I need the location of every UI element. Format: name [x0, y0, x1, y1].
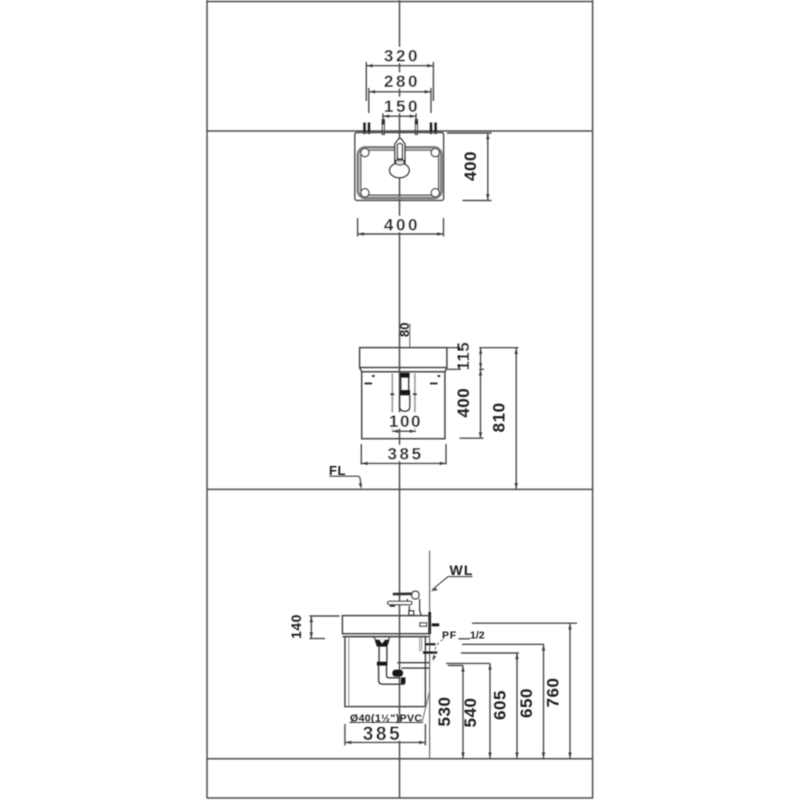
svg-text:760: 760: [544, 678, 563, 708]
svg-text:100: 100: [389, 412, 422, 431]
svg-text:540: 540: [461, 698, 480, 728]
svg-text:PF: PF: [442, 629, 457, 641]
svg-text:400: 400: [454, 388, 473, 418]
svg-text:385: 385: [388, 444, 424, 463]
svg-text:385: 385: [363, 724, 403, 745]
svg-text:280: 280: [384, 72, 420, 91]
svg-text:1/2: 1/2: [470, 629, 485, 641]
svg-text:400: 400: [384, 215, 420, 234]
svg-text:400: 400: [461, 151, 480, 181]
svg-text:650: 650: [517, 688, 536, 718]
svg-text:320: 320: [384, 47, 420, 66]
svg-text:WL: WL: [450, 562, 474, 578]
svg-text:140: 140: [288, 614, 304, 639]
svg-text:115: 115: [454, 342, 473, 371]
svg-text:150: 150: [384, 97, 420, 116]
svg-text:530: 530: [435, 697, 454, 727]
svg-text:810: 810: [490, 402, 509, 432]
svg-text:605: 605: [491, 690, 510, 720]
